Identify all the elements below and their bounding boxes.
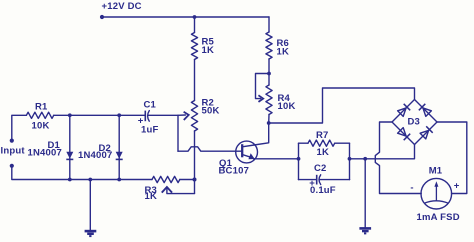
wire R6 bottom to R4 junction bbox=[268, 59, 270, 74]
wire R4 bottom to node bbox=[268, 115, 270, 124]
svg-text:1K: 1K bbox=[277, 46, 290, 57]
wire bottom rail bbox=[70, 179, 152, 181]
wire output node to bridge top bbox=[269, 88, 415, 123]
svg-text:1uF: 1uF bbox=[141, 125, 159, 136]
bridge D3 diamond wires bbox=[392, 100, 437, 145]
wire R4 wiper loop bbox=[256, 74, 270, 99]
node junction R3-R2 dot bbox=[193, 178, 197, 182]
svg-text:-: - bbox=[410, 182, 413, 193]
R2 wiper arrowhead bbox=[184, 112, 188, 119]
wire R4 junction to zigzag bbox=[268, 74, 270, 86]
R4 wiper arrowhead bbox=[259, 96, 263, 102]
svg-text:+12V DC: +12V DC bbox=[102, 1, 142, 12]
capacitor C2 curved plate bbox=[319, 175, 321, 185]
capacitor C1 plus plate bbox=[144, 111, 146, 122]
capacitor C2 plus plate bbox=[316, 175, 318, 185]
svg-text:10K: 10K bbox=[278, 101, 296, 112]
node junction R6-R4 dot bbox=[267, 72, 271, 76]
wire C2 left lead bbox=[299, 179, 316, 181]
node input terminal bottom dot bbox=[10, 164, 14, 168]
wire RC network left side bbox=[298, 143, 300, 179]
svg-text:M1: M1 bbox=[429, 166, 443, 177]
transistor Q1 circle bbox=[236, 141, 258, 163]
wire C1 to wiper junction bbox=[148, 114, 178, 116]
svg-text:1K: 1K bbox=[317, 147, 330, 158]
svg-text:BC107: BC107 bbox=[219, 166, 250, 177]
wire bridge right to meter plus bbox=[437, 122, 467, 194]
ground symbol right bbox=[359, 227, 371, 230]
node junction ground2 dot bbox=[363, 157, 367, 161]
R2 wiper arrow shaft bbox=[178, 114, 185, 116]
wire base row with hop over R2 wire bbox=[178, 147, 241, 151]
wire R7 left lead bbox=[299, 142, 309, 144]
wire bridge left to meter minus with hop bbox=[375, 122, 421, 194]
node junction emitter-RC dot bbox=[297, 157, 301, 161]
svg-text:D3: D3 bbox=[408, 116, 421, 127]
svg-text:C2: C2 bbox=[314, 163, 327, 174]
ground symbol left bbox=[85, 230, 97, 233]
svg-text:1K: 1K bbox=[202, 45, 215, 56]
wire rail to R5 top bbox=[194, 17, 196, 33]
node junction D1 bottom dot bbox=[68, 178, 72, 182]
svg-text:1K: 1K bbox=[145, 191, 158, 202]
meter M1 needle bbox=[435, 186, 437, 202]
bridge diode upper-left bbox=[398, 108, 407, 117]
bridge diode lower-left bbox=[398, 128, 407, 137]
resistor R6 bbox=[266, 32, 272, 59]
node junction RC right dot bbox=[348, 157, 352, 161]
wire C2 right lead bbox=[320, 179, 350, 181]
resistor R5 bbox=[191, 33, 197, 60]
ground stem right bbox=[364, 159, 366, 227]
wire rail corner to R6 top bbox=[268, 17, 270, 32]
svg-text:Input: Input bbox=[1, 146, 26, 157]
resistor R3 bbox=[152, 176, 180, 182]
svg-text:1N4007: 1N4007 bbox=[78, 150, 112, 161]
wire R2 bottom through crossover to R3 node bbox=[194, 131, 196, 193]
wire R3 to junction bbox=[180, 179, 195, 181]
wire input bottom lead bbox=[12, 168, 70, 180]
diode D1 leads bbox=[69, 115, 71, 179]
wire RC to bridge bottom bbox=[350, 145, 415, 159]
node junction D1 top dot bbox=[68, 113, 72, 117]
wire emitter to RC network bbox=[254, 158, 299, 160]
transistor Q1 base bar bbox=[241, 144, 243, 157]
wire input top lead bbox=[12, 115, 27, 138]
meter M1 scale arc bbox=[424, 201, 449, 204]
node junction D2 top dot bbox=[117, 113, 121, 117]
resistor R2 bbox=[191, 101, 197, 132]
diode D1 body bbox=[66, 152, 73, 159]
resistor R7 bbox=[308, 140, 335, 146]
wire R1 to D1 node bbox=[54, 114, 120, 116]
transistor Q1 collector lead bbox=[242, 123, 269, 147]
svg-text:0.1uF: 0.1uF bbox=[310, 185, 336, 196]
diode D2 body bbox=[116, 152, 123, 159]
node junction D2 bottom dot bbox=[117, 178, 121, 182]
svg-text:+: + bbox=[454, 181, 460, 192]
ground stem left bbox=[89, 180, 91, 231]
svg-text:50K: 50K bbox=[202, 106, 220, 117]
transistor Q1 emitter lead bbox=[242, 155, 250, 158]
meter M1 needle arrowhead bbox=[434, 181, 438, 187]
svg-text:R1: R1 bbox=[35, 102, 48, 113]
resistor R4 bbox=[266, 85, 272, 115]
wire D2 node to C1 bbox=[119, 114, 144, 116]
node junction ground rail dot bbox=[88, 178, 92, 182]
capacitor C1 curved plate bbox=[148, 111, 150, 122]
node junction rail-R5 dot bbox=[193, 15, 197, 19]
resistor R1 bbox=[26, 112, 53, 118]
node +12V rail left terminal dot bbox=[100, 15, 104, 19]
diode D2 leads bbox=[118, 115, 120, 179]
wire R3 wiper return bbox=[167, 188, 195, 194]
node junction R4-collector-output dot bbox=[267, 121, 271, 125]
wire wiper node down to base row bbox=[177, 115, 179, 151]
transistor Q1 emitter arrowhead bbox=[248, 153, 254, 159]
wire +12V rail bbox=[102, 16, 269, 18]
svg-text:C1: C1 bbox=[144, 100, 157, 111]
bridge diode upper-right bbox=[423, 108, 432, 117]
R3 wiper arrowhead bbox=[162, 187, 171, 192]
wire R7 right lead bbox=[335, 142, 350, 144]
wire RC network right side bbox=[349, 143, 351, 179]
svg-text:10K: 10K bbox=[32, 121, 50, 132]
wire R5 bottom to R2 top bbox=[194, 60, 196, 101]
svg-text:1N4007: 1N4007 bbox=[28, 148, 62, 159]
svg-text:1mA FSD: 1mA FSD bbox=[417, 212, 460, 223]
meter M1 circle bbox=[421, 178, 452, 209]
svg-text:R7: R7 bbox=[316, 130, 329, 141]
node input terminal top dot bbox=[10, 139, 14, 143]
bridge diode lower-right bbox=[420, 130, 429, 139]
